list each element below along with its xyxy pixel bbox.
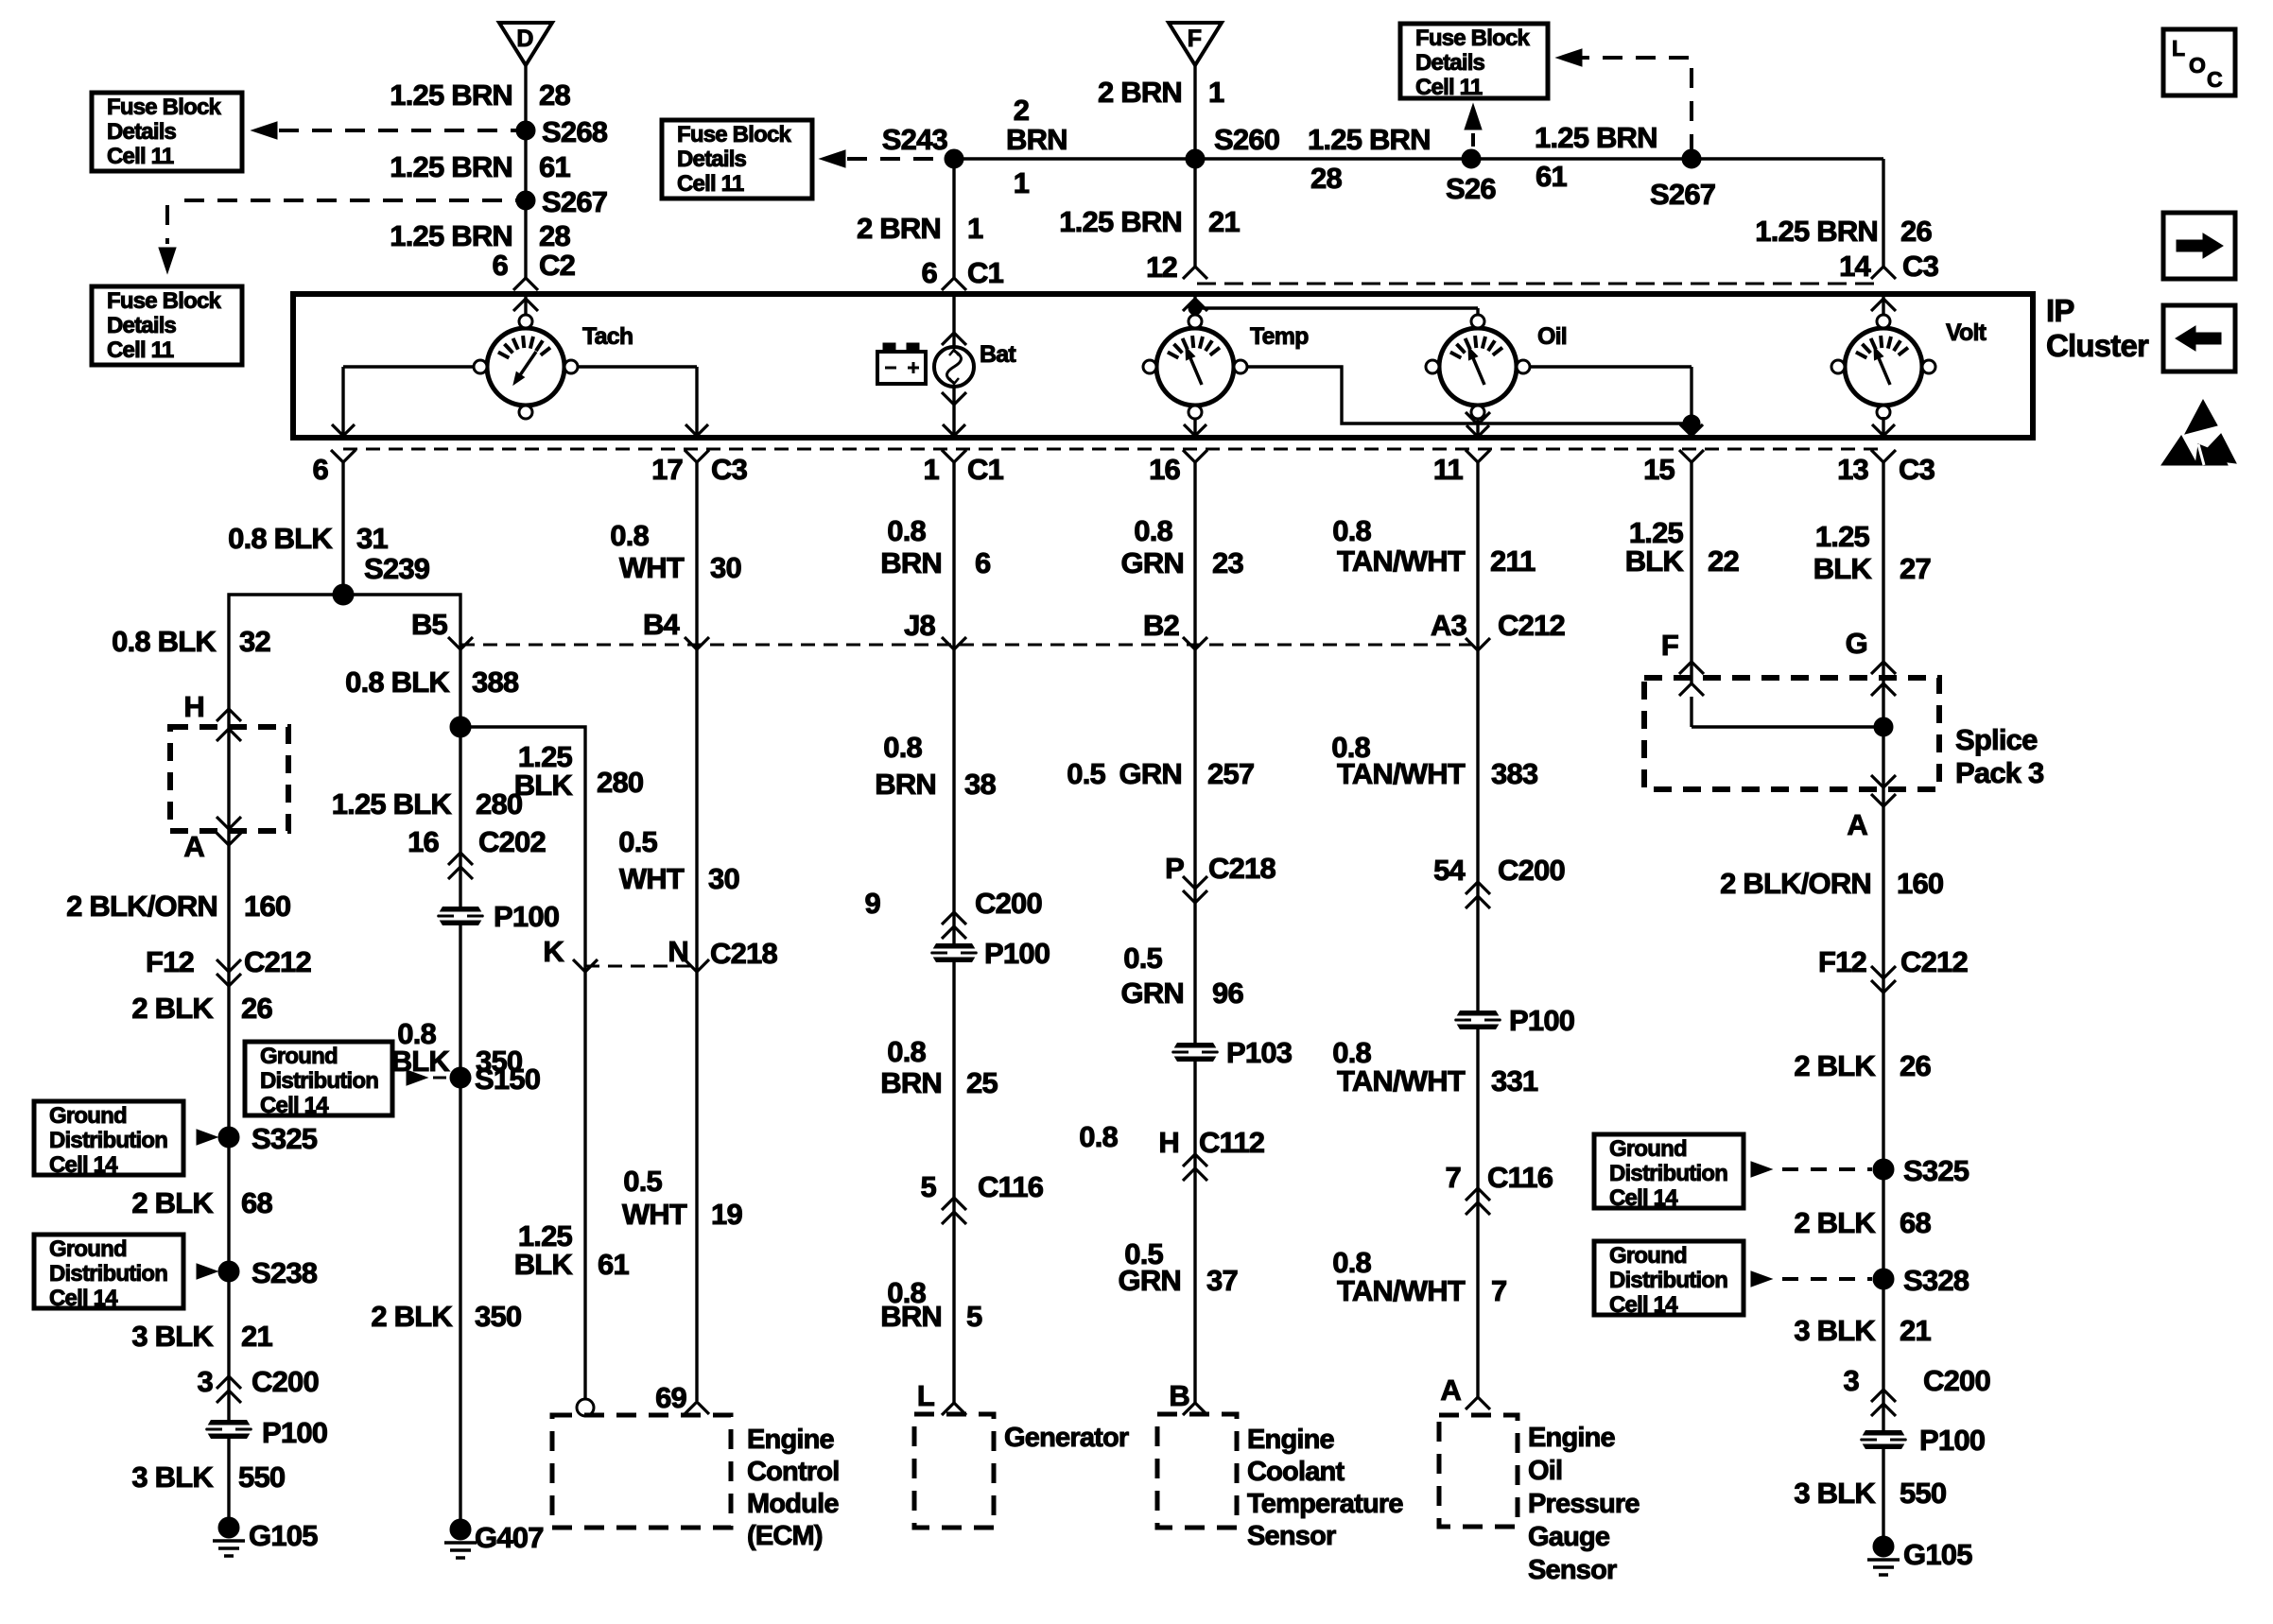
svg-text:BLK: BLK	[391, 1045, 451, 1078]
svg-text:1.25 BRN: 1.25 BRN	[390, 150, 512, 183]
svg-text:Fuse Block: Fuse Block	[677, 122, 791, 147]
svg-text:21: 21	[241, 1320, 272, 1353]
svg-text:211: 211	[1490, 544, 1536, 578]
wire pin 13 down to G105	[1882, 462, 1884, 1546]
svg-text:WHT: WHT	[622, 1198, 687, 1231]
svg-text:C1: C1	[967, 256, 1004, 289]
splice S260	[1186, 123, 1279, 168]
svg-text:Module: Module	[747, 1489, 839, 1519]
svg-text:15: 15	[1643, 453, 1674, 486]
svg-text:1: 1	[1208, 76, 1224, 109]
svg-text:1: 1	[1014, 166, 1030, 199]
wire D to IP cluster pin 6 C2	[524, 65, 527, 278]
label pin 69	[655, 1381, 686, 1414]
hotlink right arrow box	[2163, 213, 2235, 279]
svg-text:32: 32	[239, 625, 270, 658]
svg-text:2 BLK/ORN: 2 BLK/ORN	[66, 890, 217, 923]
wire Bat bottom internal	[942, 387, 966, 436]
svg-text:21: 21	[1900, 1314, 1931, 1347]
label 2 BRN 1 (horizontal wire)	[1006, 94, 1067, 199]
svg-text:0.5: 0.5	[1067, 757, 1105, 790]
svg-text:Engine: Engine	[1247, 1425, 1335, 1455]
svg-text:11: 11	[1433, 453, 1464, 486]
connector chevron pin 11 out	[1433, 450, 1490, 486]
ESD warning symbol	[2161, 400, 2236, 465]
svg-text:1.25 BLK: 1.25 BLK	[332, 787, 453, 821]
dashed reference to S325 right	[1751, 1162, 1872, 1177]
connector chevron A out	[217, 833, 241, 845]
junction dot splice pack 3	[1874, 717, 1893, 736]
svg-text:F: F	[1661, 629, 1678, 662]
label Generator	[1004, 1423, 1129, 1453]
svg-text:Cluster: Cluster	[2046, 328, 2149, 363]
svg-text:0.8: 0.8	[1134, 514, 1172, 547]
label pin F	[1661, 629, 1678, 662]
svg-text:C3: C3	[1899, 453, 1935, 486]
svg-text:C1: C1	[967, 453, 1004, 486]
label 0.5 GRN 96	[1121, 942, 1244, 1010]
svg-text:5: 5	[921, 1170, 937, 1203]
label 1.25 BRN 61 (S26-S267)	[1535, 121, 1657, 193]
svg-text:Cell 14: Cell 14	[1609, 1185, 1678, 1211]
svg-text:9: 9	[865, 887, 881, 920]
wire S260 down to pin 12	[1193, 159, 1196, 267]
fuse block details box 1	[92, 93, 242, 171]
label 0.5 GRN 37	[1119, 1237, 1238, 1297]
svg-text:S260: S260	[1214, 123, 1279, 156]
svg-text:Details: Details	[107, 119, 177, 145]
ground distribution box S150	[245, 1042, 392, 1118]
svg-text:O: O	[2189, 53, 2205, 78]
gauge Volt	[1831, 315, 1987, 419]
svg-text:S325: S325	[1903, 1154, 1969, 1187]
svg-text:37: 37	[1206, 1264, 1238, 1297]
label pin 54 C200	[1433, 854, 1565, 887]
wire pin 16 down to ECT sensor	[1193, 462, 1196, 1403]
svg-text:C2: C2	[539, 249, 575, 282]
LOC locator box	[2163, 29, 2235, 95]
wire S243 down to pin 6 C1	[952, 159, 955, 278]
ground distribution box S238	[34, 1235, 183, 1311]
wire F inside splice pack	[1679, 683, 1883, 727]
svg-text:A: A	[183, 830, 204, 863]
svg-text:Generator: Generator	[1004, 1423, 1129, 1453]
connector chevron C200 left	[217, 1376, 241, 1403]
wire Oil right internal	[1530, 367, 1692, 423]
svg-text:C212: C212	[1900, 945, 1968, 978]
svg-text:Temp: Temp	[1250, 323, 1309, 350]
label pin 14 C3	[1839, 250, 1938, 283]
grommet P100 right	[1860, 1424, 1985, 1457]
svg-text:K: K	[543, 935, 564, 968]
svg-text:Tach: Tach	[582, 323, 633, 350]
label pin P C218	[1165, 852, 1275, 885]
label 0.5 WHT 19	[622, 1165, 743, 1231]
svg-text:WHT: WHT	[619, 862, 685, 895]
connector chevron ECM 69	[685, 1402, 709, 1414]
svg-text:0.8 BLK: 0.8 BLK	[228, 522, 333, 555]
svg-text:1.25: 1.25	[1815, 520, 1870, 553]
svg-text:G105: G105	[1903, 1538, 1972, 1571]
svg-text:0.8: 0.8	[887, 514, 926, 547]
svg-text:P100: P100	[494, 900, 559, 933]
connector chevron G	[1871, 662, 1896, 674]
connector chevron pin 16 out	[1149, 450, 1207, 486]
wire Temp bottom internal	[1184, 419, 1206, 436]
wire G through splice pack	[1871, 683, 1896, 787]
svg-text:16: 16	[1149, 453, 1180, 486]
splice S268	[516, 115, 608, 148]
splice S238	[218, 1256, 318, 1289]
connector triangle D	[499, 23, 552, 65]
svg-text:160: 160	[1897, 867, 1943, 900]
svg-text:H: H	[183, 690, 204, 723]
svg-text:A3: A3	[1431, 609, 1467, 642]
label 0.8 BRN 6	[880, 514, 991, 579]
label pin 6 C1	[922, 256, 1004, 289]
svg-text:Distribution: Distribution	[1609, 1268, 1727, 1293]
svg-text:7: 7	[1491, 1274, 1506, 1307]
svg-text:C: C	[2207, 67, 2222, 92]
label 2 BLK/ORN 160	[66, 890, 290, 923]
svg-text:Fuse Block: Fuse Block	[107, 95, 221, 120]
svg-text:280: 280	[476, 787, 522, 821]
svg-text:C202: C202	[478, 825, 546, 858]
wire Bat top internal	[942, 294, 966, 347]
wire pin 1 down to Generator	[952, 462, 955, 1403]
svg-text:1: 1	[967, 212, 983, 245]
connector chevron C202	[448, 853, 473, 879]
dashed reference S268 to Fuse Block Details	[252, 122, 516, 139]
wire Tach top entry	[513, 294, 538, 315]
ground G407	[444, 1519, 544, 1558]
svg-text:388: 388	[472, 665, 519, 699]
connector chevron J8	[942, 637, 966, 649]
svg-text:2 BLK: 2 BLK	[371, 1300, 453, 1333]
svg-text:Splice: Splice	[1955, 723, 2038, 756]
connector chevron C212 right	[1871, 966, 1896, 993]
grommet P100 B5	[437, 900, 559, 933]
connector chevron C212 left	[217, 959, 241, 986]
svg-text:1.25 BRN: 1.25 BRN	[1059, 205, 1182, 238]
svg-text:68: 68	[241, 1186, 272, 1219]
connector chevron C1 entry	[942, 278, 966, 290]
svg-text:BRN: BRN	[1006, 123, 1067, 156]
svg-text:Ground: Ground	[260, 1044, 338, 1069]
label pin B4	[643, 608, 681, 641]
svg-text:19: 19	[711, 1198, 742, 1231]
svg-text:P103: P103	[1226, 1036, 1293, 1069]
svg-text:1.25 BRN: 1.25 BRN	[390, 219, 512, 252]
generator box	[914, 1414, 994, 1528]
svg-text:2 BLK: 2 BLK	[1794, 1206, 1876, 1239]
svg-text:J8: J8	[904, 609, 935, 642]
svg-text:383: 383	[1491, 757, 1538, 790]
connector chevron A3	[1466, 638, 1490, 650]
svg-text:C212: C212	[244, 945, 311, 978]
dashed connector line B5-A3	[460, 644, 1478, 647]
svg-text:BLK: BLK	[514, 1248, 574, 1281]
svg-text:S243: S243	[882, 123, 948, 156]
connector chevron oil sensor A	[1466, 1397, 1490, 1409]
svg-text:B: B	[1169, 1379, 1189, 1412]
svg-text:16: 16	[408, 825, 439, 858]
wire Oil bottom internal	[1466, 412, 1490, 437]
label 0.8 H C112	[1079, 1120, 1264, 1159]
splice S243	[882, 123, 963, 168]
label 0.8 BRN 38	[875, 731, 996, 801]
gauge Tach	[474, 315, 633, 419]
svg-text:F: F	[1188, 26, 1202, 52]
svg-text:Cell 11: Cell 11	[107, 144, 174, 169]
engine oil pressure gauge sensor box	[1439, 1415, 1518, 1527]
connector chevron C218 temp	[1183, 876, 1207, 903]
svg-text:Distribution: Distribution	[1609, 1161, 1727, 1186]
svg-text:2 BRN: 2 BRN	[1098, 76, 1182, 109]
label 2 BLK 68	[131, 1186, 272, 1219]
label pin A3 C212	[1431, 609, 1565, 642]
svg-text:7: 7	[1446, 1161, 1461, 1194]
svg-text:C3: C3	[1902, 250, 1939, 283]
svg-text:Ground: Ground	[49, 1236, 127, 1262]
wire through splice pack left	[217, 729, 241, 829]
svg-text:61: 61	[539, 150, 570, 183]
dashed reference to S325 left	[197, 1130, 225, 1145]
connector chevron C116 gen	[942, 1198, 966, 1224]
svg-text:0.5: 0.5	[623, 1165, 662, 1198]
ground distribution box S325 left	[34, 1101, 183, 1178]
svg-text:14: 14	[1839, 250, 1871, 283]
svg-text:Cell 14: Cell 14	[49, 1152, 118, 1178]
label 1.25 BRN 26	[1755, 215, 1932, 248]
label 0.8 TAN/WHT 7	[1332, 1246, 1506, 1307]
svg-text:Oil: Oil	[1528, 1456, 1562, 1486]
svg-text:H: H	[1158, 1126, 1179, 1159]
label 1.25 BRN 28 (S260-S26)	[1308, 123, 1431, 195]
label 0.8 BLK 31	[228, 522, 388, 555]
label pin 7 C116	[1446, 1161, 1553, 1194]
connector chevron ECT B	[1183, 1403, 1207, 1415]
label 0.8 TAN/WHT 331	[1332, 1036, 1538, 1097]
svg-text:0.8: 0.8	[610, 519, 649, 552]
svg-text:Volt: Volt	[1946, 320, 1987, 346]
connector chevron pin 17 C3 out	[651, 450, 747, 486]
svg-text:Ground: Ground	[1609, 1243, 1687, 1269]
gauge Bat (voltmeter circle)	[934, 341, 1016, 387]
svg-text:Distribution: Distribution	[49, 1128, 167, 1153]
svg-text:1.25 BRN: 1.25 BRN	[390, 78, 512, 112]
svg-text:5: 5	[966, 1300, 982, 1333]
svg-text:6: 6	[493, 249, 509, 282]
label 0.8 GRN 23	[1121, 514, 1244, 579]
svg-text:C218: C218	[710, 937, 777, 970]
svg-text:96: 96	[1212, 976, 1243, 1010]
connector chevron K	[573, 959, 598, 972]
svg-text:Oil: Oil	[1537, 323, 1567, 350]
svg-text:G105: G105	[249, 1519, 318, 1552]
svg-text:GRN: GRN	[1121, 976, 1185, 1010]
svg-text:Fuse Block: Fuse Block	[1415, 26, 1530, 51]
svg-text:25: 25	[966, 1066, 998, 1099]
svg-text:0.8: 0.8	[1332, 514, 1371, 547]
svg-text:Gauge: Gauge	[1528, 1522, 1610, 1552]
bus wire S243 to right corner	[954, 157, 1883, 160]
svg-text:P100: P100	[984, 937, 1050, 970]
svg-text:Fuse Block: Fuse Block	[107, 288, 221, 314]
connector triangle F	[1169, 23, 1222, 65]
svg-text:12: 12	[1146, 251, 1177, 284]
connector chevron C200 gen	[942, 912, 966, 939]
svg-text:C200: C200	[252, 1365, 319, 1398]
label 0.8 TAN/WHT 211	[1332, 514, 1536, 578]
label pin G	[1846, 627, 1867, 660]
fuse block details box 2	[92, 286, 242, 365]
dashed reference S267 to Fuse Block Details 2	[159, 200, 516, 273]
svg-text:GRN: GRN	[1119, 1264, 1182, 1297]
label 0.8 BRN 5	[880, 1276, 982, 1333]
svg-text:6: 6	[975, 546, 991, 579]
svg-text:WHT: WHT	[619, 551, 685, 584]
svg-text:BRN: BRN	[875, 768, 936, 801]
splice S325 right	[1873, 1154, 1969, 1187]
label pin L	[917, 1379, 934, 1412]
label 2 BRN 1	[1098, 76, 1224, 109]
connector chevron N	[685, 959, 709, 972]
label pin K	[543, 935, 564, 968]
svg-text:BLK: BLK	[514, 769, 574, 802]
label Engine Oil Pressure Gauge Sensor	[1528, 1423, 1640, 1585]
label 2 BRN 1 (S243 down)	[857, 212, 983, 245]
svg-text:2 BLK: 2 BLK	[131, 992, 214, 1025]
ground distribution box S328	[1594, 1241, 1744, 1318]
svg-text:6: 6	[313, 453, 329, 486]
svg-text:C3: C3	[711, 453, 748, 486]
grommet P100 gen	[930, 937, 1050, 970]
connector chevron C112	[1183, 1154, 1207, 1181]
hotlink left arrow box	[2163, 305, 2235, 371]
svg-text:N: N	[668, 935, 688, 968]
wire Volt bottom internal	[1872, 417, 1895, 436]
ECM pin terminal circle	[577, 1399, 594, 1416]
splice S150	[450, 1063, 540, 1096]
label 2 BLK 68 right	[1794, 1206, 1931, 1239]
svg-text:257: 257	[1207, 757, 1254, 790]
svg-text:23: 23	[1212, 546, 1243, 579]
label 1.25 BRN 61	[390, 150, 570, 183]
splice S26	[1446, 149, 1496, 205]
svg-text:2 BLK: 2 BLK	[131, 1186, 214, 1219]
splice S325 left	[218, 1122, 318, 1155]
wire Volt top entry	[1871, 294, 1896, 314]
svg-text:C116: C116	[978, 1170, 1044, 1203]
svg-text:S238: S238	[252, 1256, 318, 1289]
splice S239	[333, 552, 430, 605]
dashed connector line K-N C218	[585, 965, 697, 968]
svg-text:C200: C200	[1923, 1364, 1990, 1397]
label 1.25 BLK 280 (branch)	[514, 740, 644, 802]
connector chevron pin 12	[1183, 267, 1207, 279]
svg-text:TAN/WHT: TAN/WHT	[1337, 757, 1466, 790]
svg-text:3 BLK: 3 BLK	[131, 1320, 214, 1353]
svg-text:P: P	[1165, 852, 1184, 885]
connector chevron C200 right	[1871, 1390, 1896, 1416]
label pin A right	[1847, 808, 1867, 841]
svg-text:S267: S267	[542, 185, 607, 218]
svg-text:26: 26	[1900, 215, 1932, 248]
connector chevron B5	[448, 637, 473, 649]
dashed connector line C3 top	[1197, 283, 1876, 285]
svg-text:Ground: Ground	[49, 1103, 127, 1129]
svg-text:TAN/WHT: TAN/WHT	[1337, 544, 1466, 578]
svg-text:28: 28	[539, 78, 570, 112]
svg-text:3: 3	[1844, 1364, 1860, 1397]
ground G105 left	[213, 1517, 318, 1556]
svg-text:0.8: 0.8	[1079, 1120, 1118, 1153]
grommet P100 left	[205, 1416, 327, 1449]
svg-text:Distribution: Distribution	[260, 1068, 378, 1094]
wire corner down to pin 14 C3	[1882, 159, 1884, 267]
svg-text:F12: F12	[146, 945, 194, 978]
svg-text:28: 28	[1310, 162, 1342, 195]
wire F to S260	[1193, 65, 1196, 159]
label 3 BLK 550	[131, 1460, 285, 1494]
svg-text:2 BLK: 2 BLK	[1794, 1049, 1876, 1082]
label 1.25 BRN 21	[1059, 205, 1240, 238]
svg-text:69: 69	[655, 1381, 686, 1414]
label 0.5 GRN 257	[1067, 757, 1254, 790]
svg-text:28: 28	[539, 219, 570, 252]
svg-text:A: A	[1847, 808, 1867, 841]
connector chevron A out right	[1871, 794, 1896, 806]
svg-text:S325: S325	[252, 1122, 318, 1155]
label pin B2	[1143, 609, 1179, 642]
svg-text:Cell 11: Cell 11	[1415, 75, 1483, 100]
svg-text:F12: F12	[1818, 945, 1866, 978]
dashed reference to S150	[407, 1070, 446, 1085]
svg-text:BLK: BLK	[1625, 544, 1685, 578]
svg-text:A: A	[1440, 1373, 1461, 1407]
label pin 16 C202	[408, 825, 546, 858]
ground G105 right	[1867, 1536, 1972, 1575]
label pin 3 C200 left	[198, 1365, 319, 1398]
fuse block details box 4	[1400, 24, 1548, 100]
svg-text:Pack 3: Pack 3	[1955, 756, 2044, 789]
svg-text:Sensor: Sensor	[1247, 1521, 1336, 1551]
label 2 BLK/ORN 160 right	[1720, 867, 1943, 900]
svg-text:Details: Details	[1415, 50, 1485, 76]
label pin H	[183, 690, 204, 723]
svg-text:0.8: 0.8	[887, 1035, 926, 1068]
svg-text:3 BLK: 3 BLK	[131, 1460, 214, 1494]
dashed connector line below cluster	[343, 448, 1885, 451]
svg-text:S268: S268	[542, 115, 608, 148]
svg-text:S267: S267	[1650, 178, 1715, 211]
grommet P103	[1171, 1036, 1293, 1069]
dashed reference S243 to Fuse Block Details 3	[820, 150, 945, 167]
label pin 9 C200	[865, 887, 1042, 920]
svg-text:Cell 14: Cell 14	[1609, 1292, 1678, 1318]
label pin B5	[411, 608, 448, 641]
splice S267 right	[1650, 149, 1715, 211]
dashed reference to S238	[197, 1264, 225, 1279]
svg-text:38: 38	[964, 768, 996, 801]
svg-text:Ground: Ground	[1609, 1136, 1687, 1162]
svg-text:550: 550	[1900, 1477, 1946, 1510]
wire S239 left branch	[229, 595, 343, 1528]
label 1.25 BLK 280	[332, 787, 523, 821]
label pin A oil	[1440, 1373, 1461, 1407]
label 3 BLK 550 right	[1794, 1477, 1946, 1510]
